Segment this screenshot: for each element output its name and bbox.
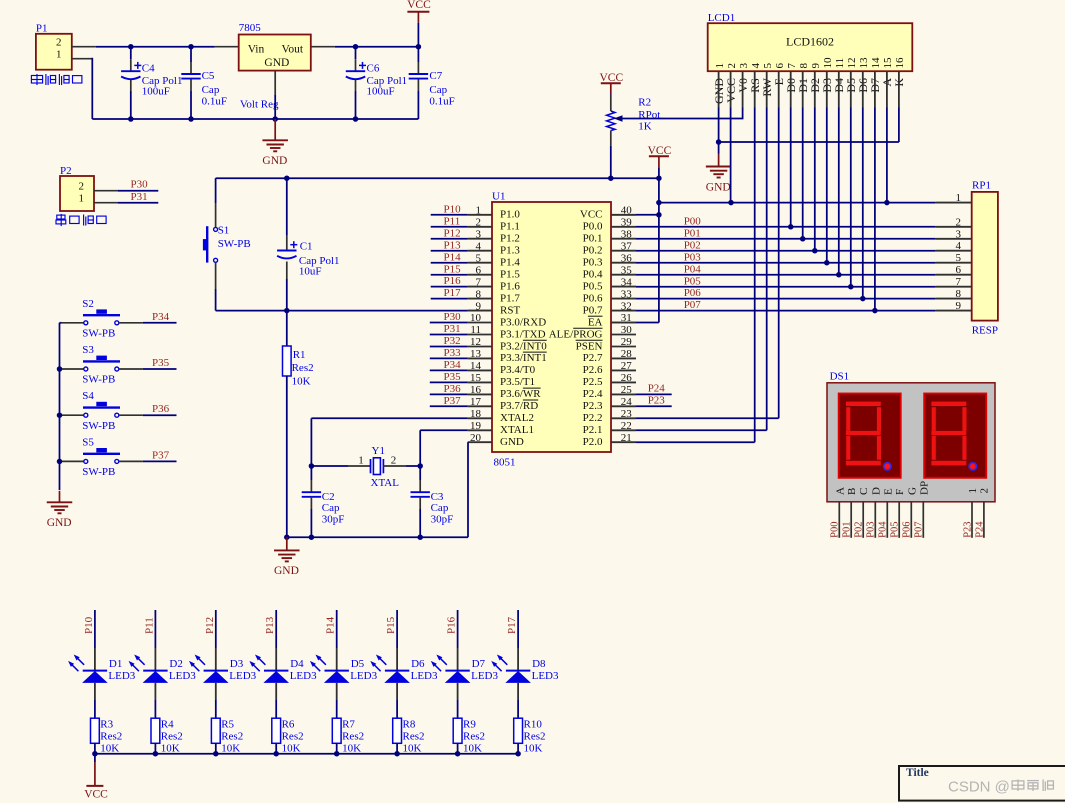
- svg-text:P35: P35: [152, 357, 170, 369]
- svg-text:4: 4: [476, 240, 482, 252]
- svg-text:P2.5: P2.5: [583, 376, 603, 388]
- svg-text:PSEN: PSEN: [576, 340, 603, 352]
- svg-text:C: C: [858, 488, 870, 495]
- svg-text:LCD1602: LCD1602: [786, 35, 834, 49]
- svg-text:RPot: RPot: [638, 109, 660, 121]
- svg-text:22: 22: [621, 420, 632, 432]
- svg-text:P01: P01: [684, 227, 701, 239]
- svg-text:G: G: [906, 487, 918, 495]
- svg-text:5: 5: [762, 63, 774, 69]
- U1 right pin stubs and numbers: [611, 441, 636, 443]
- svg-text:P3.2/INT0: P3.2/INT0: [500, 340, 547, 352]
- svg-text:P31: P31: [131, 191, 148, 203]
- svg-text:P24: P24: [974, 521, 985, 538]
- svg-text:26: 26: [621, 372, 633, 384]
- title block: [899, 766, 1065, 801]
- wire LCD GND column: [718, 108, 720, 143]
- svg-text:14: 14: [870, 57, 882, 69]
- svg-text:4: 4: [750, 63, 762, 69]
- svg-text:SW-PB: SW-PB: [82, 374, 115, 386]
- svg-text:R6: R6: [282, 718, 295, 730]
- svg-text:14: 14: [470, 360, 482, 372]
- svg-text:D: D: [870, 487, 882, 495]
- svg-text:Volt Reg: Volt Reg: [240, 99, 279, 111]
- svg-text:19: 19: [470, 420, 482, 432]
- wire pin23 to LCD E: [636, 417, 779, 419]
- svg-text:10K: 10K: [100, 743, 119, 755]
- wire 7805 GND pin: [274, 71, 276, 95]
- wire LCD A column: [886, 108, 888, 203]
- wire LCD RS column: [754, 108, 756, 443]
- wire EA to VCC: [611, 322, 636, 324]
- svg-text:GND: GND: [47, 517, 72, 529]
- svg-text:8051: 8051: [494, 457, 516, 469]
- svg-text:9: 9: [810, 63, 822, 69]
- svg-text:P01: P01: [842, 521, 853, 537]
- svg-text:P0.4: P0.4: [583, 269, 603, 281]
- wire VCC rail: [216, 177, 659, 179]
- svg-text:P11: P11: [444, 215, 461, 227]
- svg-text:P06: P06: [684, 287, 702, 299]
- svg-text:P06: P06: [902, 521, 913, 537]
- svg-text:S1: S1: [218, 225, 230, 237]
- svg-text:28: 28: [621, 348, 633, 360]
- regulator 7805: [239, 35, 311, 71]
- svg-text:20: 20: [470, 432, 482, 444]
- ground symbol crystal: [286, 537, 288, 550]
- svg-text:10uF: 10uF: [299, 266, 322, 278]
- R2 wiper arrow: [622, 118, 743, 120]
- svg-text:GND: GND: [264, 57, 289, 69]
- svg-text:D3: D3: [230, 658, 244, 670]
- svg-text:16: 16: [470, 384, 482, 396]
- svg-text:34: 34: [621, 276, 633, 288]
- wire P2 pin2: [94, 190, 118, 192]
- wire pin24 net P23: [636, 405, 672, 407]
- junction dot RST/C1/R1: [284, 308, 290, 314]
- svg-text:1: 1: [56, 49, 62, 61]
- svg-text:2: 2: [979, 488, 991, 494]
- LED D7: [457, 610, 459, 648]
- U1 left pin stubs and numbers: [468, 214, 492, 216]
- capacitor C5: [190, 47, 192, 62]
- svg-text:XTAL1: XTAL1: [500, 424, 534, 436]
- svg-text:P1: P1: [36, 23, 48, 35]
- svg-text:Res2: Res2: [100, 731, 122, 743]
- LCD pin stubs: [718, 71, 720, 107]
- svg-text:B: B: [846, 488, 858, 495]
- svg-text:P1.3: P1.3: [500, 245, 520, 257]
- wire VCC vertical: [658, 178, 660, 322]
- wire U1 pin20 GND: [467, 442, 469, 537]
- wires U1 pins 10-17 with net labels P30-P37: [430, 322, 468, 324]
- svg-text:P0.6: P0.6: [583, 292, 603, 304]
- svg-text:10K: 10K: [463, 743, 482, 755]
- switch S5 SW-PB: [62, 460, 86, 462]
- wire Vout to VCC: [311, 46, 335, 48]
- svg-text:LED3: LED3: [169, 670, 196, 682]
- svg-text:7805: 7805: [239, 22, 262, 34]
- svg-text:0.1uF: 0.1uF: [202, 95, 227, 107]
- svg-text:R9: R9: [463, 718, 476, 730]
- svg-text:39: 39: [621, 217, 633, 229]
- DS1 left digit: [839, 394, 901, 478]
- svg-text:P3.5/T1: P3.5/T1: [500, 376, 535, 388]
- wires P0 rows to RP1 with net labels P00-P07: [636, 226, 936, 228]
- svg-text:GND: GND: [274, 565, 299, 577]
- svg-text:C5: C5: [202, 70, 215, 82]
- svg-text:RST: RST: [500, 304, 520, 316]
- svg-text:GND: GND: [500, 436, 524, 448]
- svg-text:P0.7: P0.7: [583, 304, 603, 316]
- svg-text:30: 30: [621, 324, 633, 336]
- svg-text:8: 8: [476, 288, 482, 300]
- svg-text:S2: S2: [82, 298, 94, 310]
- svg-text:P05: P05: [890, 521, 901, 537]
- svg-text:P37: P37: [152, 449, 170, 461]
- svg-text:P34: P34: [152, 311, 170, 323]
- switch S1 SW-PB: [215, 178, 217, 203]
- svg-text:LED3: LED3: [471, 670, 498, 682]
- svg-text:P2.0: P2.0: [583, 436, 603, 448]
- svg-text:10K: 10K: [524, 743, 543, 755]
- power VCC bottom: [94, 754, 96, 762]
- svg-text:1: 1: [967, 488, 979, 494]
- DS1 segment pins with net labels P00-P07: [838, 502, 840, 538]
- svg-text:10K: 10K: [221, 743, 240, 755]
- U1 overlines right: [588, 315, 603, 317]
- svg-text:SW-PB: SW-PB: [82, 420, 115, 432]
- svg-text:R8: R8: [403, 718, 416, 730]
- resistor R8: [393, 718, 402, 743]
- svg-text:R2: R2: [638, 96, 651, 108]
- wire LCD VCC column: [730, 108, 732, 203]
- svg-text:P2.3: P2.3: [583, 400, 603, 412]
- svg-text:P0.3: P0.3: [583, 257, 603, 269]
- DS1 right digit: [924, 394, 986, 478]
- svg-text:1: 1: [79, 193, 85, 205]
- svg-text:LED3: LED3: [350, 670, 377, 682]
- svg-text:S5: S5: [82, 436, 94, 448]
- svg-text:Y1: Y1: [372, 445, 385, 457]
- svg-text:P3.3/INT1: P3.3/INT1: [500, 352, 547, 364]
- svg-text:P3.1/TXD: P3.1/TXD: [500, 328, 546, 340]
- svg-text:P37: P37: [444, 395, 462, 407]
- svg-text:P1.5: P1.5: [500, 269, 520, 281]
- svg-text:P2.6: P2.6: [583, 364, 603, 376]
- switch S4 SW-PB: [62, 414, 86, 416]
- svg-text:27: 27: [621, 360, 633, 372]
- svg-text:Vin: Vin: [248, 43, 265, 55]
- capacitor C2: [310, 466, 312, 480]
- svg-text:Cap: Cap: [429, 84, 447, 96]
- svg-text:P1.1: P1.1: [500, 221, 520, 233]
- svg-text:P35: P35: [444, 371, 462, 383]
- svg-text:D8: D8: [532, 658, 546, 670]
- svg-text:P34: P34: [444, 359, 462, 371]
- svg-text:GND: GND: [706, 181, 731, 193]
- wire RST row: [216, 310, 468, 312]
- svg-text:P17: P17: [506, 616, 518, 634]
- svg-text:CSDN @: CSDN @: [948, 779, 1010, 796]
- svg-text:1K: 1K: [638, 121, 652, 133]
- svg-text:P04: P04: [878, 521, 889, 538]
- svg-text:10K: 10K: [292, 375, 311, 387]
- svg-text:P33: P33: [444, 347, 462, 359]
- svg-text:Res2: Res2: [524, 731, 546, 743]
- svg-text:P23: P23: [962, 521, 973, 537]
- resistor R3: [91, 718, 100, 743]
- resistor R9: [453, 718, 462, 743]
- capacitor C4: [130, 47, 132, 60]
- svg-text:Res2: Res2: [463, 731, 485, 743]
- resistor R4: [151, 718, 160, 743]
- LED D6: [396, 610, 398, 648]
- svg-text:P36: P36: [444, 383, 462, 395]
- svg-text:P24: P24: [648, 383, 666, 395]
- svg-text:35: 35: [621, 264, 633, 276]
- svg-text:Cap: Cap: [202, 84, 220, 96]
- crystal Y1 XTAL: [309, 463, 315, 469]
- svg-text:P16: P16: [446, 616, 458, 634]
- svg-text:P3.4/T0: P3.4/T0: [500, 364, 536, 376]
- svg-text:P14: P14: [325, 616, 337, 634]
- svg-text:P12: P12: [444, 227, 461, 239]
- svg-text:U1: U1: [492, 191, 505, 203]
- resistor R5: [211, 718, 220, 743]
- svg-text:P03: P03: [684, 251, 702, 263]
- svg-text:P00: P00: [684, 215, 702, 227]
- svg-text:R5: R5: [221, 718, 234, 730]
- svg-text:R1: R1: [293, 349, 306, 361]
- wire button ground bus: [59, 323, 61, 490]
- svg-text:12: 12: [846, 58, 858, 69]
- LED D2: [154, 610, 156, 648]
- svg-text:P2.1: P2.1: [583, 424, 603, 436]
- U1 overlines left: [523, 339, 547, 341]
- svg-text:P00: P00: [830, 521, 841, 537]
- svg-text:P03: P03: [866, 521, 877, 537]
- junction dots top rail: [128, 44, 134, 50]
- svg-text:E: E: [882, 488, 894, 495]
- svg-text:2: 2: [79, 181, 85, 193]
- microcontroller U1 8051: [492, 202, 611, 452]
- svg-text:2: 2: [476, 217, 482, 229]
- svg-text:21: 21: [621, 432, 632, 444]
- svg-text:P05: P05: [684, 275, 702, 287]
- svg-text:A: A: [834, 487, 846, 495]
- svg-text:LED3: LED3: [108, 670, 135, 682]
- svg-text:C7: C7: [429, 70, 442, 82]
- svg-text:D2: D2: [169, 658, 182, 670]
- wire XTAL2 pin18: [311, 417, 467, 419]
- svg-text:0.1uF: 0.1uF: [429, 95, 454, 107]
- svg-text:C1: C1: [300, 240, 313, 252]
- wire P1 pin2 to top rail: [72, 46, 96, 48]
- svg-text:9: 9: [956, 300, 962, 312]
- svg-text:29: 29: [621, 336, 633, 348]
- LED D4: [275, 610, 277, 648]
- svg-text:Cap: Cap: [431, 502, 449, 514]
- svg-text:VCC: VCC: [84, 789, 108, 801]
- svg-text:7: 7: [786, 63, 798, 69]
- wire U1 pin40 VCC: [611, 214, 636, 216]
- svg-text:P10: P10: [444, 203, 462, 215]
- svg-text:2: 2: [56, 37, 62, 49]
- svg-text:30pF: 30pF: [322, 513, 345, 525]
- svg-text:18: 18: [470, 408, 482, 420]
- svg-text:10K: 10K: [342, 743, 361, 755]
- svg-text:8: 8: [956, 288, 962, 300]
- svg-text:RESP: RESP: [972, 325, 998, 337]
- switch S3 SW-PB: [62, 368, 86, 370]
- resistor R6: [272, 718, 281, 743]
- svg-text:3: 3: [738, 63, 750, 69]
- svg-text:XTAL2: XTAL2: [500, 412, 534, 424]
- wires U1 pins 1-8 with net labels P10-P17: [431, 214, 468, 216]
- svg-text:40: 40: [621, 205, 633, 217]
- wire pin25 net P24: [636, 393, 672, 395]
- svg-text:SW-PB: SW-PB: [82, 328, 115, 340]
- svg-text:6: 6: [956, 264, 962, 276]
- svg-text:P07: P07: [684, 299, 702, 311]
- svg-text:37: 37: [621, 240, 633, 252]
- svg-text:RP1: RP1: [972, 180, 991, 192]
- svg-text:DS1: DS1: [830, 371, 850, 383]
- svg-text:10: 10: [822, 57, 834, 69]
- svg-text:33: 33: [621, 288, 633, 300]
- resistor pack RP1: [972, 192, 998, 321]
- svg-text:11: 11: [834, 58, 846, 69]
- svg-text:P04: P04: [684, 263, 702, 275]
- svg-text:2: 2: [391, 454, 397, 466]
- svg-text:SW-PB: SW-PB: [82, 466, 115, 478]
- svg-text:13: 13: [470, 348, 482, 360]
- svg-text:1: 1: [358, 454, 364, 466]
- svg-text:5: 5: [956, 252, 962, 264]
- svg-text:GND: GND: [262, 155, 287, 167]
- svg-text:P36: P36: [152, 403, 170, 415]
- svg-text:C6: C6: [367, 63, 380, 75]
- wire LED common bus: [95, 753, 518, 755]
- svg-text:15: 15: [882, 57, 894, 69]
- svg-text:F: F: [894, 489, 906, 495]
- svg-text:4: 4: [956, 240, 962, 252]
- potentiometer R2 RPot: [610, 95, 612, 111]
- svg-text:6: 6: [774, 63, 786, 69]
- svg-text:Res2: Res2: [161, 731, 183, 743]
- pin stub Vin: [215, 46, 239, 48]
- svg-text:P02: P02: [684, 239, 701, 251]
- svg-text:3: 3: [956, 228, 962, 240]
- svg-text:EA: EA: [588, 316, 603, 328]
- svg-text:S3: S3: [82, 344, 94, 356]
- svg-text:XTAL: XTAL: [371, 477, 400, 489]
- svg-text:30pF: 30pF: [431, 513, 454, 525]
- svg-text:17: 17: [470, 396, 482, 408]
- LED D8: [517, 610, 519, 648]
- svg-text:S4: S4: [82, 390, 94, 402]
- svg-text:P23: P23: [648, 394, 666, 406]
- svg-text:8: 8: [798, 63, 810, 69]
- svg-text:P15: P15: [385, 616, 397, 634]
- svg-text:P07: P07: [914, 521, 925, 537]
- wire bottom rail: [92, 118, 418, 120]
- resistor R1: [286, 311, 288, 346]
- svg-text:D5: D5: [351, 658, 365, 670]
- connector P2: [60, 176, 94, 211]
- svg-text:24: 24: [621, 396, 633, 408]
- LED D5: [336, 610, 338, 648]
- label 电源接口 (power connector): [31, 74, 42, 85]
- svg-text:DP: DP: [918, 481, 930, 495]
- svg-text:P16: P16: [444, 275, 462, 287]
- svg-text:1: 1: [476, 205, 482, 217]
- svg-text:P1.4: P1.4: [500, 257, 520, 269]
- LED D3: [215, 610, 217, 648]
- svg-text:100uF: 100uF: [142, 85, 170, 97]
- svg-text:R10: R10: [524, 718, 543, 730]
- svg-text:LED3: LED3: [229, 670, 256, 682]
- svg-text:10K: 10K: [282, 743, 301, 755]
- wire LCD gnd row: [719, 141, 899, 143]
- svg-text:P14: P14: [444, 251, 462, 263]
- svg-text:25: 25: [621, 384, 633, 396]
- svg-text:16: 16: [894, 57, 906, 69]
- junction dots VCC rail: [284, 175, 290, 181]
- ground symbol buttons: [59, 491, 61, 503]
- svg-text:1: 1: [956, 192, 962, 204]
- svg-text:6: 6: [476, 264, 482, 276]
- ground symbol below 7805: [274, 119, 276, 140]
- svg-text:3: 3: [476, 228, 482, 240]
- svg-text:P15: P15: [444, 263, 462, 275]
- svg-text:Title: Title: [906, 767, 929, 779]
- svg-text:SW-PB: SW-PB: [218, 238, 251, 250]
- svg-text:D7: D7: [472, 658, 486, 670]
- switch S2 SW-PB: [62, 322, 86, 324]
- svg-text:11: 11: [470, 324, 481, 336]
- svg-text:P13: P13: [444, 239, 462, 251]
- svg-text:P11: P11: [143, 617, 155, 634]
- svg-text:LED3: LED3: [532, 670, 559, 682]
- svg-text:Res2: Res2: [403, 731, 425, 743]
- svg-text:C4: C4: [142, 63, 155, 75]
- svg-text:10: 10: [470, 312, 482, 324]
- wire P1 pin1 down to bottom rail: [72, 58, 93, 60]
- svg-text:P02: P02: [854, 521, 865, 537]
- svg-text:P3.6/WR: P3.6/WR: [500, 388, 541, 400]
- DS1 digit pins with net labels P23 P24: [971, 502, 973, 538]
- svg-text:P2.4: P2.4: [583, 388, 603, 400]
- svg-text:23: 23: [621, 408, 633, 420]
- svg-text:R4: R4: [161, 718, 174, 730]
- capacitor C1: [286, 178, 288, 235]
- svg-text:P10: P10: [83, 616, 95, 634]
- label 串口接口 (serial connector): [56, 214, 66, 226]
- svg-text:2: 2: [726, 63, 738, 69]
- svg-text:5: 5: [476, 252, 482, 264]
- svg-text:32: 32: [621, 300, 632, 312]
- svg-text:P2.7: P2.7: [583, 352, 603, 364]
- capacitor C3: [419, 466, 421, 480]
- svg-text:P31: P31: [444, 323, 461, 335]
- svg-text:7: 7: [956, 276, 962, 288]
- svg-text:9: 9: [476, 300, 482, 312]
- svg-text:D4: D4: [290, 658, 304, 670]
- LED D1: [94, 610, 96, 648]
- svg-text:P17: P17: [444, 287, 462, 299]
